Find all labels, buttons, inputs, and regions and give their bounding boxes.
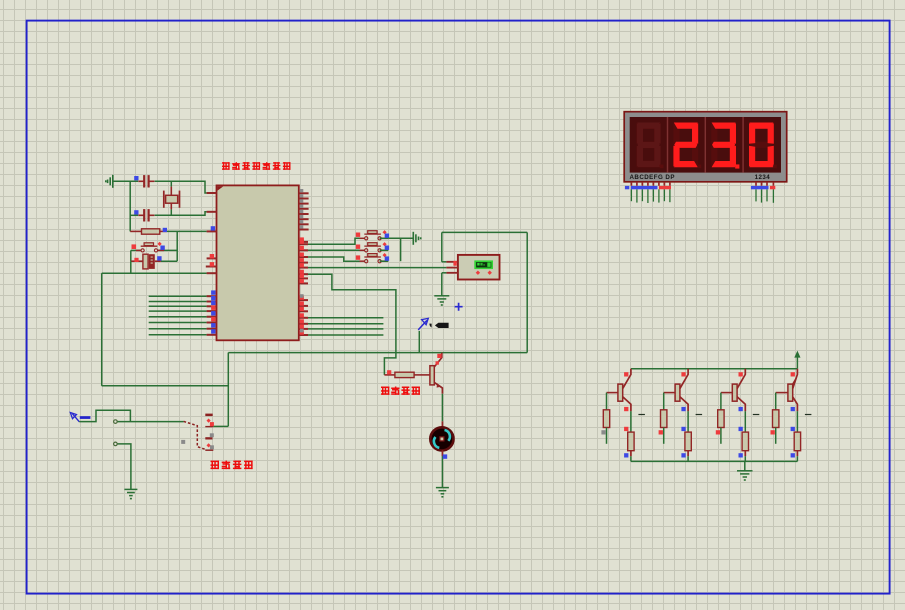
svg-text:ABCDEFG DP: ABCDEFG DP xyxy=(630,174,675,181)
svg-text:1234: 1234 xyxy=(755,174,771,181)
